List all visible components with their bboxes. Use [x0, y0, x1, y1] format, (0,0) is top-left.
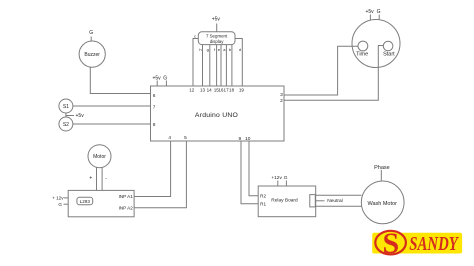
- svg-text:Arduino UNO: Arduino UNO: [195, 112, 238, 119]
- svg-text:13: 13: [200, 88, 206, 93]
- svg-text:+5v: +5v: [212, 16, 221, 22]
- svg-text:+ 12v: + 12v: [52, 196, 64, 201]
- svg-text:G: G: [377, 9, 381, 15]
- svg-text:4: 4: [168, 135, 171, 141]
- svg-text:14: 14: [207, 88, 213, 93]
- svg-text:G: G: [58, 202, 62, 207]
- svg-text:display: display: [210, 39, 224, 44]
- svg-text:7 Segment: 7 Segment: [206, 34, 228, 39]
- svg-text:R1: R1: [260, 202, 266, 207]
- svg-text:2: 2: [280, 98, 283, 104]
- svg-text:10: 10: [245, 136, 251, 142]
- svg-text:Motor: Motor: [93, 154, 106, 160]
- svg-text:SANDY: SANDY: [409, 234, 459, 255]
- svg-text:+5v: +5v: [152, 75, 161, 81]
- svg-text:G: G: [284, 175, 288, 181]
- svg-text:3: 3: [280, 92, 283, 98]
- svg-text:Relay Board: Relay Board: [271, 197, 298, 203]
- svg-text:S: S: [382, 227, 399, 260]
- svg-text:g: g: [207, 47, 209, 52]
- svg-text:L293: L293: [80, 199, 91, 204]
- svg-text:Start: Start: [383, 51, 395, 57]
- svg-text:G: G: [89, 30, 93, 36]
- svg-text:Time: Time: [356, 51, 368, 57]
- svg-text:Phase: Phase: [374, 165, 390, 171]
- svg-text:h: h: [199, 47, 201, 52]
- svg-text:Wash Motor: Wash Motor: [367, 201, 397, 207]
- svg-text:INP A1: INP A1: [119, 194, 134, 199]
- svg-text:5: 5: [184, 135, 187, 141]
- svg-text:S2: S2: [63, 122, 69, 128]
- svg-text:G: G: [163, 75, 167, 81]
- svg-text:18: 18: [229, 88, 235, 93]
- svg-text:6: 6: [153, 93, 156, 99]
- svg-text:+5v: +5v: [76, 113, 85, 119]
- svg-text:d: d: [239, 47, 241, 52]
- svg-text:9: 9: [238, 136, 241, 142]
- svg-text:+: +: [89, 176, 92, 182]
- svg-text:INP A2: INP A2: [119, 205, 134, 210]
- svg-text:8: 8: [153, 122, 156, 128]
- svg-text:19: 19: [239, 88, 245, 93]
- svg-text:+5v: +5v: [365, 9, 374, 15]
- svg-text:Buzzer: Buzzer: [84, 52, 100, 58]
- svg-text:7: 7: [153, 104, 156, 110]
- svg-text:+12v: +12v: [271, 175, 282, 181]
- svg-text:S1: S1: [63, 104, 69, 110]
- svg-text:c: c: [194, 33, 196, 38]
- svg-text:Neutral: Neutral: [327, 198, 342, 204]
- svg-text:12: 12: [189, 88, 195, 93]
- svg-text:R2: R2: [260, 193, 266, 198]
